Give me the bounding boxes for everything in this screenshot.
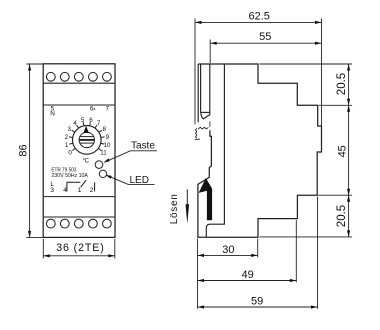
dimension 62.5 [195, 10, 322, 126]
thick release arrow [199, 178, 213, 220]
svg-text:20.5: 20.5 [336, 205, 348, 227]
svg-text:2: 2 [90, 187, 94, 194]
svg-text:9: 9 [106, 134, 110, 141]
svg-text:N: N [50, 110, 55, 117]
svg-text:55: 55 [259, 31, 271, 43]
svg-text:49: 49 [241, 269, 253, 281]
front view horizontal line above bottom terminals [43, 216, 115, 218]
label 20.5 bottom [336, 205, 348, 227]
dimension 30 [198, 244, 258, 257]
terminal labels 5 N 6 7 [50, 105, 109, 117]
bottom extension lines [198, 197, 318, 309]
rotary dial outer circle [73, 126, 102, 155]
DIN rail channel walls and hook [201, 64, 210, 119]
svg-text:8: 8 [103, 126, 107, 133]
front view body outline [43, 64, 115, 238]
type text ETR 79 503 [51, 167, 88, 178]
dial pointer triangle [83, 126, 88, 133]
svg-text:3: 3 [50, 187, 54, 194]
svg-text:20.5: 20.5 [336, 73, 348, 95]
svg-text:59: 59 [251, 295, 263, 307]
svg-text:7: 7 [97, 120, 101, 127]
dimension 49 [198, 269, 297, 282]
label 45 [337, 145, 349, 157]
svg-text:2: 2 [65, 134, 69, 141]
svg-text:5: 5 [81, 117, 85, 124]
dimension 86 [17, 64, 43, 237]
right side extension lines [260, 64, 353, 237]
LED label and leader [106, 175, 155, 186]
svg-text:62.5: 62.5 [248, 10, 269, 22]
Taste button circle [95, 161, 103, 169]
right dimension line 20.5 / 45 / 20.5 [347, 64, 350, 237]
dimension 36 (2TE) [43, 239, 115, 259]
Loesen label [169, 194, 180, 224]
dimension 55 [210, 31, 321, 63]
terminal labels L 3 4 1 2 [50, 181, 93, 194]
interior vertical line and clip bottom tab [206, 64, 224, 237]
front view horizontal line below label area [43, 196, 115, 198]
svg-text:Taste: Taste [131, 141, 155, 152]
degC label [83, 159, 90, 165]
bottom terminal screws [46, 219, 111, 228]
dimension 59 [198, 295, 318, 308]
svg-text:3: 3 [68, 126, 72, 133]
LED circle [99, 170, 106, 177]
top terminal screws [46, 72, 111, 81]
rotary dial inner circle with slot [79, 132, 94, 147]
Loesen thin arrow [186, 189, 190, 224]
label 20.5 top [336, 73, 348, 95]
svg-text:86: 86 [17, 144, 29, 156]
spring hatch marks [195, 121, 210, 139]
svg-text:0: 0 [68, 150, 72, 157]
front view horizontal line under top terminals [43, 82, 115, 84]
dial numbers 0-11 [65, 117, 111, 157]
svg-text:1: 1 [65, 142, 69, 149]
svg-text:11: 11 [100, 150, 107, 157]
svg-text:10: 10 [104, 142, 111, 149]
svg-text:230V 50Hz 10A: 230V 50Hz 10A [51, 173, 88, 179]
svg-text:30: 30 [222, 244, 234, 256]
svg-text:1: 1 [78, 187, 82, 194]
Taste label and leader [104, 141, 157, 163]
relay contact symbol [67, 180, 95, 191]
svg-text:7: 7 [106, 106, 110, 113]
svg-text:4: 4 [73, 120, 77, 127]
svg-text:36 (2TE): 36 (2TE) [56, 242, 104, 254]
back wall upper segment [197, 64, 199, 122]
svg-text:Lösen: Lösen [169, 194, 180, 224]
front view horizontal line top of label area [43, 104, 115, 106]
dial tick marks [69, 122, 105, 150]
svg-text:45: 45 [337, 145, 349, 157]
svg-text:6: 6 [89, 117, 93, 124]
side view main profile [198, 64, 322, 237]
